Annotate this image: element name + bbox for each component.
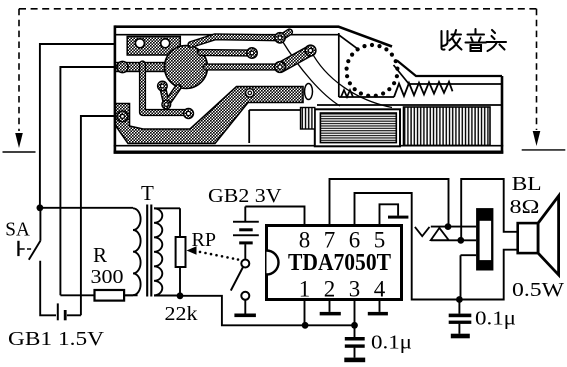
svg-text:1: 1 <box>299 277 311 302</box>
svg-text:RP: RP <box>192 229 217 251</box>
svg-text:3: 3 <box>349 277 361 302</box>
svg-text:5: 5 <box>374 228 386 253</box>
svg-text:2: 2 <box>324 277 336 302</box>
svg-text:7: 7 <box>324 228 336 253</box>
svg-text:T: T <box>141 181 154 205</box>
svg-text:0.5W: 0.5W <box>512 279 564 301</box>
svg-text:GB1 1.5V: GB1 1.5V <box>8 328 105 350</box>
svg-text:R: R <box>93 243 107 267</box>
svg-text:BL: BL <box>512 173 542 195</box>
svg-text:4: 4 <box>374 277 386 302</box>
svg-text:0.1μ: 0.1μ <box>475 308 516 330</box>
svg-text:GB2 3V: GB2 3V <box>208 185 282 207</box>
svg-text:22k: 22k <box>165 303 198 325</box>
svg-text:8Ω: 8Ω <box>510 196 540 218</box>
svg-text:TDA7050T: TDA7050T <box>288 250 391 276</box>
svg-text:SA: SA <box>5 219 30 241</box>
svg-text:300: 300 <box>91 266 124 288</box>
svg-text:0.1μ: 0.1μ <box>371 332 412 354</box>
svg-text:6: 6 <box>349 228 361 253</box>
svg-text:8: 8 <box>299 228 311 253</box>
